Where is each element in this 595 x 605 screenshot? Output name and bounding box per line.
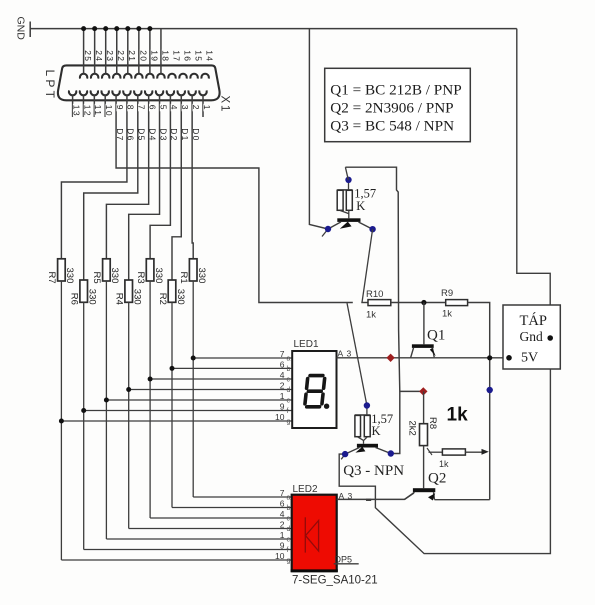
svg-text:7: 7: [280, 349, 285, 359]
svg-text:DP5: DP5: [335, 555, 353, 565]
svg-text:R2: R2: [157, 293, 168, 305]
svg-text:c: c: [287, 516, 291, 523]
svg-text:330: 330: [64, 268, 75, 284]
svg-text:LED2: LED2: [293, 484, 318, 495]
svg-text:b: b: [287, 366, 291, 373]
svg-text:R9: R9: [441, 288, 453, 299]
svg-text:c: c: [287, 377, 291, 384]
svg-text:330: 330: [175, 289, 186, 305]
svg-text:9: 9: [280, 402, 285, 412]
svg-text:2: 2: [280, 520, 285, 530]
svg-text:9: 9: [280, 541, 285, 551]
svg-text:g: g: [287, 419, 291, 426]
svg-text:R6: R6: [69, 293, 80, 305]
svg-text:a: a: [287, 495, 291, 502]
svg-text:Q1: Q1: [427, 328, 445, 344]
svg-text:5V: 5V: [521, 351, 538, 366]
svg-text:a: a: [287, 356, 291, 363]
svg-text:1k: 1k: [447, 405, 469, 426]
svg-text:22: 22: [116, 50, 126, 62]
svg-text:7: 7: [137, 105, 147, 111]
svg-text:23: 23: [105, 50, 115, 62]
svg-text:7-SEG_SA10-21: 7-SEG_SA10-21: [292, 575, 378, 587]
svg-text:8: 8: [126, 105, 136, 111]
svg-text:4: 4: [169, 105, 179, 111]
svg-text:17: 17: [171, 50, 181, 62]
svg-text:R8: R8: [427, 417, 438, 429]
svg-text:Gnd: Gnd: [520, 329, 543, 344]
svg-text:14: 14: [205, 50, 215, 62]
svg-text:330: 330: [153, 268, 164, 284]
svg-text:Q3 - NPN: Q3 - NPN: [343, 463, 404, 479]
svg-text:f: f: [287, 408, 289, 415]
svg-text:4: 4: [280, 509, 285, 519]
svg-text:Q1 = BC 212B / PNP: Q1 = BC 212B / PNP: [330, 81, 461, 98]
svg-text:20: 20: [138, 50, 148, 62]
svg-text:7: 7: [280, 488, 285, 498]
svg-text:R1: R1: [178, 272, 189, 284]
svg-text:e: e: [287, 537, 291, 544]
svg-text:K: K: [372, 424, 381, 438]
svg-text:19: 19: [149, 50, 159, 62]
svg-text:4: 4: [280, 370, 285, 380]
svg-text:10: 10: [275, 551, 285, 561]
svg-text:330: 330: [87, 289, 98, 305]
svg-text:21: 21: [127, 50, 137, 62]
svg-text:1k: 1k: [442, 309, 452, 320]
svg-text:A: A: [338, 349, 344, 359]
svg-text:3: 3: [347, 349, 352, 359]
svg-text:f: f: [287, 547, 289, 554]
svg-text:d: d: [287, 526, 291, 533]
svg-text:13: 13: [71, 105, 81, 117]
svg-text:1: 1: [202, 105, 212, 111]
svg-text:R4: R4: [114, 293, 125, 305]
svg-text:330: 330: [109, 268, 120, 284]
svg-text:LED1: LED1: [294, 339, 319, 350]
svg-text:K: K: [356, 199, 365, 213]
svg-text:10: 10: [275, 412, 285, 422]
svg-text:X1: X1: [219, 96, 231, 114]
svg-text:24: 24: [94, 50, 104, 62]
svg-text:b: b: [287, 505, 291, 512]
svg-text:TÁP: TÁP: [520, 312, 547, 329]
svg-text:2: 2: [191, 105, 201, 111]
svg-text:1: 1: [280, 391, 285, 401]
svg-text:10: 10: [104, 105, 114, 117]
svg-text:R7: R7: [46, 272, 57, 284]
svg-text:6: 6: [280, 359, 285, 369]
svg-text:6: 6: [147, 105, 157, 111]
svg-text:GND: GND: [15, 17, 27, 41]
svg-text:25: 25: [83, 50, 93, 62]
svg-text:15: 15: [194, 50, 204, 62]
svg-text:2: 2: [280, 381, 285, 391]
svg-text:LPT: LPT: [43, 70, 57, 102]
svg-text:d: d: [287, 387, 291, 394]
svg-text:1: 1: [280, 530, 285, 540]
svg-text:g: g: [287, 558, 291, 565]
svg-text:e: e: [287, 398, 291, 405]
svg-text:16: 16: [182, 50, 192, 62]
svg-text:Q2: Q2: [428, 471, 446, 487]
svg-text:1k: 1k: [439, 459, 449, 469]
svg-text:R10: R10: [366, 289, 383, 300]
svg-text:Q3 = BC 548 / NPN: Q3 = BC 548 / NPN: [330, 117, 454, 134]
svg-text:6: 6: [280, 499, 285, 509]
svg-text:5: 5: [158, 105, 168, 111]
svg-text:9: 9: [115, 105, 125, 111]
svg-text:Q2 = 2N3906 / PNP: Q2 = 2N3906 / PNP: [330, 99, 453, 116]
svg-text:R3: R3: [135, 272, 146, 284]
svg-text:3: 3: [180, 105, 190, 111]
svg-text:11: 11: [93, 105, 103, 116]
svg-text:330: 330: [132, 289, 143, 305]
svg-text:18: 18: [160, 50, 170, 62]
svg-text:330: 330: [196, 268, 207, 284]
svg-text:R5: R5: [91, 272, 102, 284]
svg-text:2k2: 2k2: [407, 421, 418, 436]
svg-text:1k: 1k: [366, 310, 376, 321]
svg-text:12: 12: [82, 105, 92, 117]
